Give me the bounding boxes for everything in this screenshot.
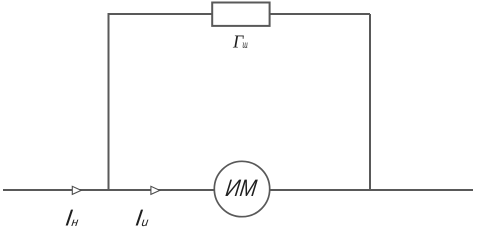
svg-text:Iн: Iн	[64, 204, 81, 230]
svg-text:ш: ш	[242, 38, 247, 51]
svg-text:ИМ: ИМ	[224, 175, 259, 202]
svg-text:Iи: Iи	[134, 204, 151, 230]
